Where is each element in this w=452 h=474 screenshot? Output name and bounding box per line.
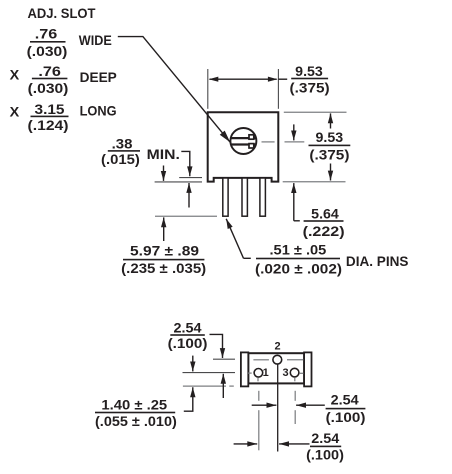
dimension 2.54/(.100) pin 2 to pin 3 bbox=[252, 392, 366, 425]
standoff dimension .38 MIN extension lines bbox=[155, 151, 202, 207]
svg-text:MIN.: MIN. bbox=[147, 146, 180, 162]
svg-text:(.100): (.100) bbox=[326, 409, 366, 425]
centerline pin 2 vertical bbox=[277, 364, 279, 451]
dimension 1.40/(.055) pin row to edge bbox=[95, 356, 193, 429]
svg-text:2.54: 2.54 bbox=[174, 320, 202, 336]
pin diameter dimension .51/(.020) DIA. PINS bbox=[226, 219, 408, 276]
svg-text:(.375): (.375) bbox=[290, 80, 330, 96]
height dimension 9.53/(.375) right bbox=[283, 112, 351, 182]
svg-text:X: X bbox=[10, 103, 20, 119]
front view body bbox=[208, 112, 279, 181]
svg-text:3: 3 bbox=[282, 367, 288, 379]
dimension 2.54/(.100) pin row spacing left bbox=[168, 320, 224, 398]
svg-text:WIDE: WIDE bbox=[79, 32, 112, 48]
dimension 2.54/(.100) pin 1 to pin 2 bbox=[234, 430, 344, 462]
screw slot bbox=[231, 137, 257, 139]
svg-text:LONG: LONG bbox=[80, 103, 117, 119]
centerline dashes bottom view bbox=[253, 359, 269, 361]
pin 1 bottom view bbox=[254, 369, 263, 378]
dimension 5.64/(.222) screw center to seating plane bbox=[294, 124, 345, 239]
bottom view left tab bbox=[241, 352, 248, 386]
svg-text:ADJ. SLOT: ADJ. SLOT bbox=[28, 5, 96, 21]
svg-text:1: 1 bbox=[263, 367, 269, 379]
svg-text:(.222): (.222) bbox=[303, 223, 345, 239]
svg-text:DEEP: DEEP bbox=[80, 69, 117, 85]
svg-text:9.53: 9.53 bbox=[295, 63, 323, 79]
extension lines left of bottom view bbox=[213, 358, 235, 360]
pin 2 bottom view bbox=[273, 355, 282, 364]
dimension X .76/(.030) DEEP bbox=[10, 63, 117, 96]
pin 3 bottom view bbox=[290, 368, 299, 377]
svg-text:.51 ± .05: .51 ± .05 bbox=[270, 241, 327, 257]
svg-text:5.64: 5.64 bbox=[311, 206, 339, 222]
svg-text:DIA. PINS: DIA. PINS bbox=[346, 253, 409, 269]
dimension X 3.15/(.124) LONG bbox=[10, 101, 117, 133]
pin 1 front bbox=[223, 178, 228, 216]
svg-text:2.54: 2.54 bbox=[331, 392, 359, 408]
svg-text:(.100): (.100) bbox=[306, 446, 344, 462]
svg-text:(.375): (.375) bbox=[309, 146, 349, 162]
bottom view body bbox=[248, 353, 304, 383]
svg-text:.76: .76 bbox=[35, 25, 58, 41]
svg-text:(.124): (.124) bbox=[28, 117, 69, 133]
width dimension 9.53/(.375) top bbox=[208, 63, 330, 109]
svg-text:X: X bbox=[10, 66, 20, 82]
centerline dashes at screw slot bbox=[262, 141, 275, 143]
svg-text:(.015): (.015) bbox=[101, 151, 140, 167]
extension line pin 3 bbox=[294, 391, 296, 401]
svg-text:(.100): (.100) bbox=[168, 335, 208, 351]
svg-text:9.53: 9.53 bbox=[316, 129, 344, 145]
pin length dimension 5.97/(.235) bbox=[121, 166, 217, 276]
pin 2 front bbox=[242, 178, 247, 216]
svg-text:1.40 ± .25: 1.40 ± .25 bbox=[101, 397, 167, 413]
svg-text:.38: .38 bbox=[112, 136, 133, 152]
adjustment screw circle bbox=[230, 128, 256, 154]
svg-text:(.020 ± .002): (.020 ± .002) bbox=[255, 260, 342, 276]
dimension .76/(.030) WIDE bbox=[27, 25, 112, 59]
leader line WIDE to adjustment slot bbox=[118, 37, 230, 143]
slot tabs bbox=[249, 135, 254, 139]
svg-text:.76: .76 bbox=[38, 63, 61, 79]
dimension .38/(.015) MIN. standoff bbox=[101, 136, 180, 167]
svg-text:(.235 ± .035): (.235 ± .035) bbox=[121, 260, 206, 276]
svg-text:2.54: 2.54 bbox=[311, 430, 339, 446]
svg-text:5.97 ± .89: 5.97 ± .89 bbox=[130, 243, 199, 259]
svg-text:3.15: 3.15 bbox=[35, 101, 65, 117]
extension line pin 1 bbox=[258, 391, 260, 401]
pin 3 front bbox=[260, 178, 266, 216]
svg-text:(.030): (.030) bbox=[28, 80, 69, 96]
svg-text:(.030): (.030) bbox=[27, 43, 68, 59]
svg-text:(.055 ± .010): (.055 ± .010) bbox=[95, 413, 177, 429]
svg-text:2: 2 bbox=[274, 341, 280, 353]
bottom view right tab bbox=[304, 352, 311, 386]
